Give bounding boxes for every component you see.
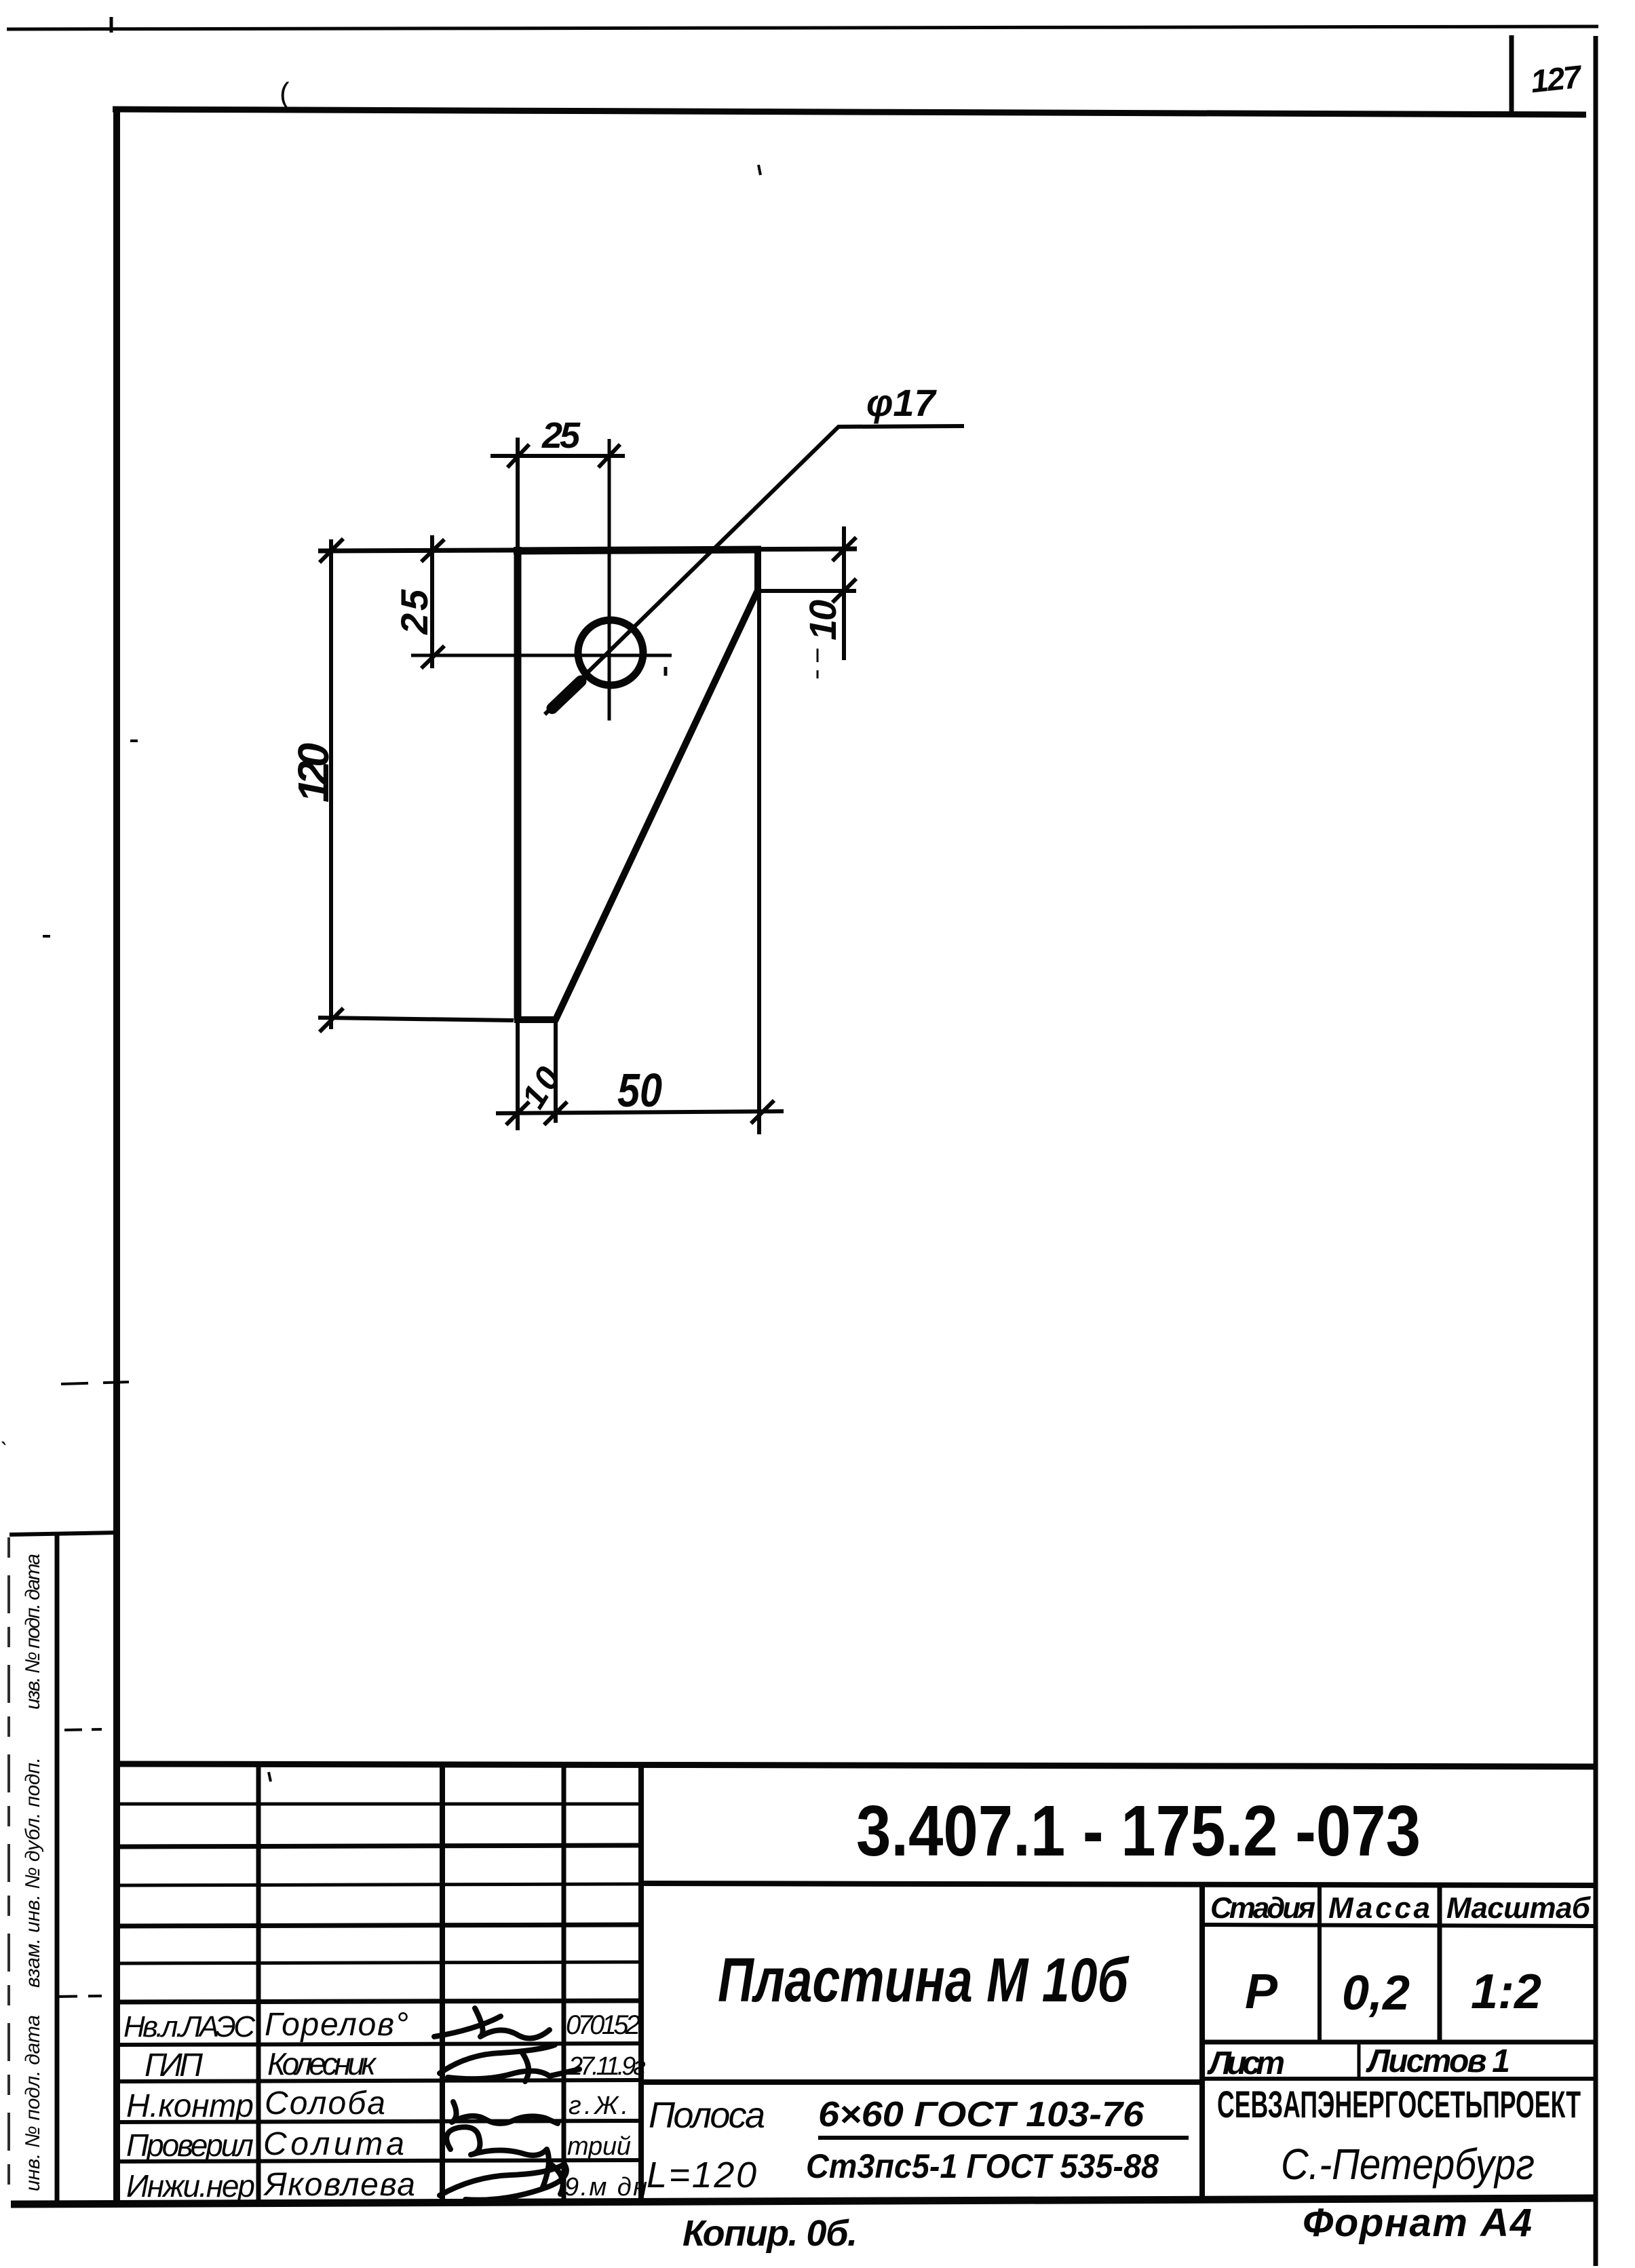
left margin stamp dash 2 [57,1996,102,1997]
fraction line in material cell [818,2136,1189,2140]
svg-text:9.м дн: 9.м дн [564,2173,647,2202]
svg-text:трий: трий [567,2132,631,2161]
signature table row line 9 [117,2121,641,2122]
dimension line 25 (top) [490,454,625,458]
svg-text:Нв.л.ЛАЭС: Нв.л.ЛАЭС [123,2010,256,2043]
plate left edge [514,547,522,1020]
svg-text:Солоба: Солоба [265,2086,385,2121]
svg-text:ГИП: ГИП [145,2048,203,2083]
bottom corner extension down [554,1020,558,1123]
tick [544,1102,567,1125]
svg-text:С.-Петербург: С.-Петербург [1281,2140,1535,2189]
stadia row bottom border [1202,1925,1594,1926]
svg-text:50: 50 [617,1064,662,1117]
values row bottom border [1202,2040,1594,2045]
svg-text:Проверил: Проверил [126,2128,254,2163]
divider list/listov [1358,2042,1361,2079]
frame right border [1594,36,1598,2266]
signature table row line 3 [117,1884,641,1885]
left margin stamp box top [9,1533,117,1535]
signature squiggle row 2 [440,2045,579,2081]
svg-text:0,2: 0,2 [1342,1966,1410,2020]
frame left border [113,107,120,2203]
stray speck above table [269,1772,271,1782]
svg-text:Масштаб: Масштаб [1446,1891,1592,1925]
svg-text:Копир. 0б.: Копир. 0б. [682,2213,858,2254]
svg-text:Листов 1: Листов 1 [1366,2043,1510,2079]
dimension line 25 (left vertical) [430,535,434,668]
list row bottom border [1202,2077,1594,2081]
tick [832,537,856,561]
tick [598,444,620,467]
signature squiggle row 1 [434,2008,550,2039]
bottom dimension line 10 / 50 [496,1111,784,1113]
title block top border [117,1764,1594,1767]
svg-text:Колесник: Колесник [267,2046,377,2081]
tick [832,579,856,602]
svg-text:127: 127 [1529,58,1584,100]
plate top edge (thick outline) [514,550,761,551]
svg-text:Горелов°: Горелов° [265,2007,408,2043]
svg-text:Ст3пс5-1 ГОСТ 535-88: Ст3пс5-1 ГОСТ 535-88 [806,2147,1159,2185]
leader line for d17 [545,426,964,714]
frame top border [113,109,1586,115]
top-right registration tick [1509,35,1514,113]
svg-text:Н.контр: Н.контр [126,2088,254,2124]
plate top edge with dimension extensions [318,549,857,551]
stray dash line left margin [61,1382,129,1384]
dimension line 10 (right) [842,526,846,660]
dimension line 120 [329,539,333,1029]
svg-text:Яковлева: Яковлева [263,2167,415,2203]
svg-text:(: ( [280,77,290,110]
vertical divider middle/right section [1199,1883,1205,2199]
tick [421,539,444,562]
tick [320,1008,343,1032]
top-left registration tick [110,17,113,33]
stray speck right of hole [664,667,668,676]
svg-text:Солита: Солита [263,2126,404,2162]
signature table row line 1 [117,1803,641,1806]
signature table row line 10 [117,2160,641,2161]
tick [320,539,343,562]
svg-text:инв. № подл. дата: инв. № подл. дата [22,2015,44,2191]
svg-text:Форнат А4: Форнат А4 [1303,2201,1532,2245]
signature squiggle row 3 [452,2102,558,2123]
name cell bottom border [641,2079,1202,2085]
svg-text:Инжи.нер: Инжи.нер [126,2168,255,2204]
leader dash below 10 [817,649,819,678]
bottom edge extension (for 120) [318,1018,514,1020]
signature table column line 3 [562,1764,566,2200]
signature squiggle row 5 [440,2164,566,2200]
signature table row line 2 [117,1845,641,1847]
svg-text:Полоса: Полоса [649,2095,765,2136]
hole vertical centerline [608,439,611,720]
svg-text:изв. № подп. дата: изв. № подп. дата [22,1554,44,1710]
leader arrowhead [552,681,581,708]
svg-text:Лист: Лист [1207,2045,1285,2081]
svg-text:070152: 070152 [566,2010,640,2040]
svg-text:φ17: φ17 [866,381,938,424]
svg-text:СЕВЗАПЭНЕРГОСЕТЬПРОЕКТ: СЕВЗАПЭНЕРГОСЕТЬПРОЕКТ [1217,2083,1581,2126]
hole horizontal centerline [411,654,672,657]
svg-text:Масса: Масса [1328,1891,1430,1925]
tick [507,444,529,467]
svg-text:г.Ж.: г.Ж. [569,2092,628,2120]
svg-text:25: 25 [541,415,581,456]
right edge extension down to bottom dimension [757,590,761,1134]
svg-text:Пластина М 10б: Пластина М 10б [718,1946,1130,2015]
page top edge scan line [7,26,1598,29]
stray dash mark left margin [43,935,50,938]
svg-text:`: ` [0,1438,7,1464]
hole (d17) [578,620,643,685]
designation row bottom border [641,1883,1594,1885]
signature table row line 4 [117,1925,641,1926]
signature table row line 5 [117,1962,641,1963]
signature squiggle row 4 [446,2127,549,2187]
left margin stamp dash 1 [64,1729,102,1730]
left edge extension above top [516,438,520,547]
tick [421,646,444,668]
svg-text:Стадия: Стадия [1210,1891,1315,1925]
signature table row line 8 [117,2080,641,2081]
signature table column line 2 [440,1764,445,2200]
tick [751,1100,774,1123]
extension line for 10 (right chamfer) [761,589,856,593]
plate right edge [754,547,761,592]
tick [506,1102,529,1125]
svg-text:6×60 ГОСТ 103-76: 6×60 ГОСТ 103-76 [818,2095,1144,2134]
divider massa/masshtab [1438,1883,1442,2042]
left margin stamp box left edge [7,1537,10,2202]
stray dash mark near left frame [130,739,138,742]
plate bottom edge [514,1016,557,1023]
svg-text:27.11.9г: 27.11.9г [568,2052,646,2081]
divider stadia/massa [1317,1883,1322,2042]
plate sloped edge (hypotenuse) [555,589,758,1021]
svg-text:L=120: L=120 [647,2155,756,2195]
svg-text:Р: Р [1245,1965,1278,2019]
signature table column line 1 [256,1764,261,2200]
left edge extension below bottom [516,1020,520,1130]
svg-text:1:2: 1:2 [1471,1965,1541,2019]
left margin stamp box divider [55,1535,60,2201]
signature table row line 6 [117,2001,641,2002]
svg-text:взам. инв. № дубл. подп.: взам. инв. № дубл. подп. [22,1757,44,1988]
signature table row line 7 [117,2043,641,2045]
frame bottom border [11,2198,1595,2204]
svg-text:3.407.1 - 175.2 -073: 3.407.1 - 175.2 -073 [856,1791,1421,1871]
stray speck top middle [758,165,761,175]
svg-text:120: 120 [289,743,338,803]
signature table right border [638,1764,644,2200]
svg-text:25: 25 [393,589,436,635]
svg-text:10: 10 [801,600,844,640]
